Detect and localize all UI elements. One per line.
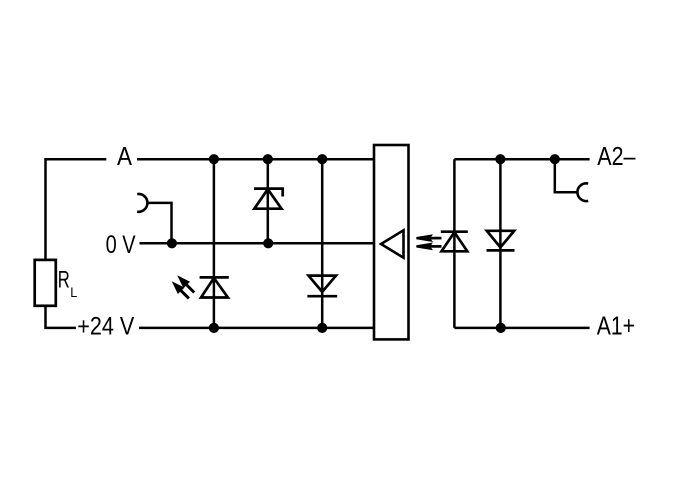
svg-text:A: A [117, 141, 133, 171]
wire A row to box [137, 158, 374, 161]
wire right rail 1 (opto LED) [453, 159, 456, 328]
optocoupler LED [441, 232, 468, 252]
junction A row rail1 [209, 154, 219, 164]
plug contact left [137, 194, 147, 212]
svg-text:0 V: 0 V [106, 231, 136, 259]
diode right [487, 231, 515, 251]
wire rail 1 (LED branch) [213, 159, 216, 328]
wire rail 3 (diode branch) [321, 159, 324, 328]
wire A1 row [454, 327, 589, 330]
svg-text:L: L [70, 285, 77, 300]
junction 24V rail1 [209, 323, 219, 333]
wire A row left segment [46, 158, 107, 161]
LED light arrow lower [172, 281, 189, 298]
zener diode upper [254, 189, 283, 209]
svg-text:+24 V: +24 V [77, 313, 134, 341]
junction 0V rail2 [263, 238, 273, 248]
wire left rail upper [44, 158, 47, 260]
light arrow into receiver lower [416, 243, 441, 251]
svg-text:R: R [58, 266, 70, 293]
light arrow into receiver upper [416, 234, 441, 242]
junction A row rail3 [317, 154, 327, 164]
svg-text:A2–: A2– [597, 141, 636, 171]
wire 0V row [140, 242, 375, 245]
wire rail 2 (zener branch) [267, 159, 270, 243]
output driver box [374, 145, 409, 339]
junction A2 rail2 [495, 154, 505, 164]
LED light arrow upper [177, 275, 194, 292]
wire plug right drop [555, 159, 578, 192]
junction A1 rail2 [496, 323, 506, 333]
svg-text:A1+: A1+ [597, 310, 635, 340]
junction A row rail2 [263, 154, 273, 164]
junction A2 plug [550, 154, 560, 164]
diode lower left [307, 276, 337, 297]
LED indicator [200, 277, 229, 297]
wire right rail 2 (diode) [499, 159, 502, 328]
wire +24V row to box [139, 327, 374, 330]
plug contact right [577, 183, 588, 201]
junction 0V plug [167, 238, 177, 248]
resistor RL [35, 260, 78, 306]
wire left rail lower [46, 306, 76, 328]
junction 24V rail3 [317, 323, 327, 333]
wire plug to 0V [147, 203, 171, 243]
amplifier triangle [381, 230, 404, 257]
wire A2 row [454, 158, 589, 161]
